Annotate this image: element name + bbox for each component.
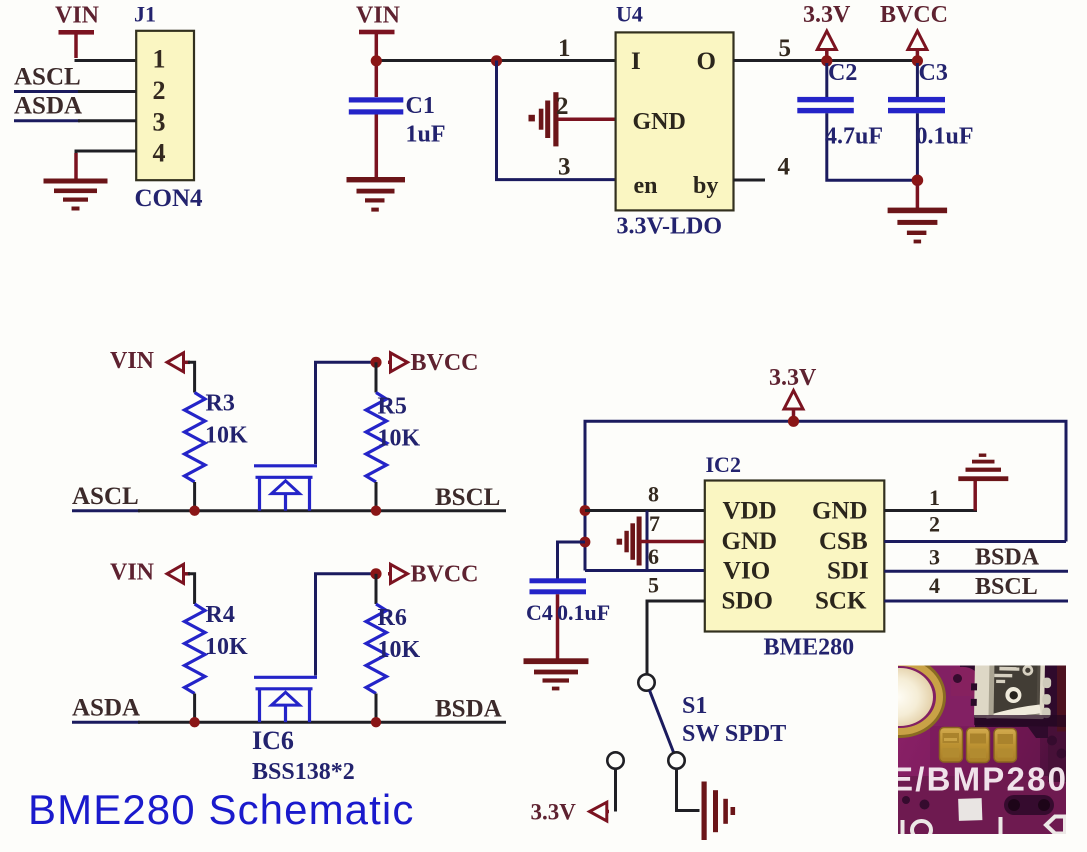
svg-text:1: 1	[153, 45, 166, 74]
dark dogbone slot	[1004, 795, 1054, 815]
svg-text:SDO: SDO	[722, 588, 773, 615]
svg-text:BME280: BME280	[764, 635, 855, 661]
svg-text:S1: S1	[682, 693, 707, 719]
power 3.3V (S1)	[531, 800, 610, 825]
node VIN junction	[371, 55, 382, 66]
power VIN (J1)	[55, 3, 100, 59]
wire 3.3V rail (IC2)	[585, 421, 1066, 570]
node ASCL (J1)	[14, 64, 136, 92]
svg-text:IC6: IC6	[252, 726, 294, 755]
svg-text:2: 2	[556, 93, 569, 120]
transistor Q1 (BSS138 half)	[254, 466, 317, 511]
svg-text:VIN: VIN	[356, 3, 401, 29]
wire IC2 pin5 (SDO)	[647, 601, 705, 674]
svg-text:4: 4	[778, 154, 791, 181]
svg-text:SCK: SCK	[815, 588, 867, 615]
svg-text:BSCL: BSCL	[975, 574, 1038, 600]
switch S1 contact top	[638, 674, 654, 690]
can markings	[994, 666, 1032, 684]
ground (IC2 pin7, sideways)	[617, 517, 705, 566]
svg-text:VIN: VIN	[55, 3, 100, 29]
svg-text:10K: 10K	[205, 423, 248, 449]
solder pad 2	[967, 728, 990, 763]
dark area around sensor can	[960, 666, 1066, 739]
svg-text:1uF: 1uF	[406, 122, 446, 148]
can pins right	[1042, 678, 1051, 719]
svg-text:IC2: IC2	[706, 452, 741, 477]
svg-text:C4: C4	[526, 600, 553, 625]
svg-text:BVCC: BVCC	[880, 2, 948, 28]
regulator U4	[616, 2, 734, 240]
ground (C1)	[347, 177, 406, 212]
node junction R3/ASCL	[189, 506, 199, 516]
node junction R5/BSCL	[371, 506, 381, 516]
node 3.3V junction	[788, 416, 799, 427]
node junction BVCC/R6	[370, 568, 381, 579]
svg-text:0.1uF: 0.1uF	[916, 124, 974, 150]
svg-text:1: 1	[929, 485, 940, 510]
svg-text:7: 7	[649, 511, 660, 536]
svg-text:R6: R6	[378, 605, 407, 631]
svg-text:BVCC: BVCC	[411, 562, 479, 588]
svg-text:by: by	[693, 173, 718, 199]
svg-text:2: 2	[929, 512, 940, 537]
svg-text:3: 3	[929, 545, 940, 570]
wire IC2 pin1	[884, 509, 977, 512]
node junction R4/ASDA	[189, 717, 199, 727]
wire IC2 pin4	[884, 600, 1068, 603]
white pad square	[958, 798, 982, 821]
switch S1 blade	[650, 690, 674, 753]
svg-text:C1: C1	[406, 93, 435, 119]
power BVCC (row2)	[388, 562, 479, 588]
transistor Q2 (BSS138 half)	[254, 677, 317, 722]
power BVCC (top)	[880, 2, 948, 57]
wire ASDA-BSDA	[72, 721, 140, 724]
svg-text:C2: C2	[828, 60, 857, 86]
svg-text:O: O	[697, 48, 716, 75]
wire J1 pin1	[75, 59, 137, 62]
switch S1 contact 3.3V	[607, 752, 623, 768]
resistor R6	[366, 574, 421, 722]
ground (S1, sideways right)	[702, 782, 736, 841]
svg-text:1: 1	[558, 35, 571, 62]
silkscreen bottom shapes	[903, 817, 1066, 840]
node ASDA (J1)	[14, 93, 136, 121]
svg-text:10K: 10K	[205, 634, 248, 660]
ground (C2/C3)	[888, 184, 948, 243]
node junction C4	[580, 537, 591, 548]
solder pad 1	[940, 728, 963, 763]
capacitor C1	[349, 66, 446, 178]
svg-text:BSDA: BSDA	[975, 545, 1040, 571]
resistor R4	[185, 602, 249, 722]
svg-text:5: 5	[779, 35, 792, 62]
svg-text:VIN: VIN	[110, 560, 155, 586]
svg-text:BSDA: BSDA	[435, 696, 502, 723]
svg-text:CSB: CSB	[819, 528, 868, 555]
wire IC2 pin6	[585, 569, 705, 572]
IC IC2 BME280	[705, 452, 885, 661]
wire VIN rail to U4 pin1	[376, 59, 615, 62]
svg-text:SDI: SDI	[827, 558, 869, 585]
svg-text:2: 2	[153, 76, 166, 105]
power 3.3V (IC2)	[769, 365, 817, 418]
resistor R5	[366, 362, 421, 510]
svg-text:R5: R5	[378, 394, 407, 420]
svg-text:3.3V-LDO: 3.3V-LDO	[617, 214, 723, 240]
wire IC2 pin3	[884, 570, 1068, 573]
svg-text:8: 8	[648, 482, 659, 507]
svg-text:VDD: VDD	[723, 498, 777, 525]
svg-text:4: 4	[153, 139, 166, 168]
wire S1 common to ground	[677, 769, 700, 811]
svg-text:ASCL: ASCL	[14, 64, 81, 91]
svg-text:5: 5	[648, 573, 659, 598]
svg-text:BVCC: BVCC	[411, 350, 479, 376]
pcb background	[898, 666, 1066, 835]
svg-text:VIN: VIN	[110, 348, 155, 374]
svg-text:6: 6	[648, 544, 659, 569]
node junction BVCC/R5	[370, 357, 381, 368]
ground (pin1, inverted)	[958, 454, 1008, 482]
svg-text:U4: U4	[616, 2, 643, 27]
wire ASCL-BSCL	[72, 509, 140, 512]
node 3.3V junction	[821, 55, 832, 66]
svg-text:10K: 10K	[378, 426, 421, 452]
wire IC2 pin2	[884, 540, 1066, 543]
wire U4 output (pin5)	[734, 59, 918, 62]
svg-text:3: 3	[558, 154, 571, 181]
wire pin8-pin6 connector	[646, 511, 649, 571]
wire en branch	[497, 61, 616, 180]
svg-text:GND: GND	[722, 528, 778, 555]
svg-text:en: en	[634, 173, 658, 199]
node junction VDD	[580, 505, 591, 516]
svg-text:10K: 10K	[378, 637, 421, 663]
svg-text:SW SPDT: SW SPDT	[682, 721, 786, 747]
power VIN (row1)	[110, 348, 195, 393]
svg-text:4: 4	[929, 573, 940, 598]
capacitor C2	[797, 60, 917, 180]
svg-text:GND: GND	[812, 498, 868, 525]
can pins left notches	[971, 683, 977, 706]
power VIN (U4 input)	[356, 3, 401, 59]
svg-text:3.3V: 3.3V	[531, 800, 577, 825]
ground (U4 pin2, sideways)	[529, 92, 616, 146]
svg-text:BSCL: BSCL	[435, 484, 500, 511]
svg-text:I: I	[631, 48, 641, 75]
wire mosfet1 gate to BVCC rail	[316, 362, 377, 464]
node junction at en branch	[491, 55, 502, 66]
svg-text:ASDA: ASDA	[14, 93, 82, 120]
mounting hole gold ring	[859, 661, 942, 734]
node BVCC junction	[912, 55, 923, 66]
node junction R6/BSDA	[371, 717, 381, 727]
wire IC2 pin8	[585, 509, 705, 512]
svg-text:R3: R3	[206, 391, 235, 417]
svg-text:ASCL: ASCL	[72, 483, 139, 510]
node C2/C3 ground junction	[912, 175, 924, 187]
svg-text:VIO: VIO	[723, 558, 770, 585]
svg-text:CON4: CON4	[135, 185, 204, 212]
svg-text:BME280 Schematic: BME280 Schematic	[28, 786, 414, 833]
dark strip right edge	[1057, 666, 1066, 732]
svg-text:3.3V: 3.3V	[803, 2, 851, 28]
wire J1 pin4	[76, 151, 136, 156]
svg-text:J1: J1	[134, 2, 156, 27]
connector J1	[134, 2, 203, 213]
solder pad 3	[994, 729, 1017, 763]
svg-text:C3: C3	[919, 60, 948, 86]
svg-text:GND: GND	[633, 109, 686, 135]
via dark holes	[902, 674, 1067, 810]
svg-text:BSS138*2: BSS138*2	[252, 759, 355, 785]
svg-text:0.1uF: 0.1uF	[557, 600, 610, 625]
power BVCC (row1)	[388, 350, 479, 376]
svg-text:ASDA: ASDA	[72, 695, 140, 722]
capacitor C4	[526, 542, 610, 659]
svg-text:3: 3	[153, 108, 166, 137]
svg-text:3.3V: 3.3V	[769, 365, 817, 391]
ground (C4)	[524, 658, 589, 690]
wire U4 by stub (pin4)	[734, 179, 766, 182]
metal sensor can	[970, 651, 1051, 719]
power VIN (row2)	[110, 560, 195, 605]
shadow under can	[974, 715, 1066, 727]
switch S1 contact common	[668, 752, 684, 768]
resistor R3	[185, 391, 249, 512]
wire S1 to 3.3V	[614, 769, 617, 812]
wire mosfet2 gate to BVCC rail	[316, 574, 377, 676]
ground (J1)	[44, 179, 108, 211]
svg-text:4.7uF: 4.7uF	[825, 124, 883, 150]
power 3.3V (top)	[803, 2, 851, 57]
svg-text:R4: R4	[206, 602, 235, 628]
svg-text:E/BMP280: E/BMP280	[891, 761, 1068, 798]
capacitor C3	[888, 60, 974, 180]
